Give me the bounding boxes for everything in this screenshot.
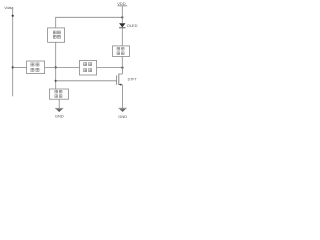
ground symbol right [119,108,127,112]
wire row horizontal segment 1 [13,66,27,68]
junction dot at VDD line [121,16,123,18]
svg-text:GND: GND [55,114,64,119]
junction dot main vertical at row wire [55,66,57,68]
wire top horizontal VDD feed [56,17,123,28]
pseudo CJK text right box [117,47,124,54]
junction dot data line upper [12,15,14,17]
pseudo CJK text left box [31,63,39,72]
VDD power symbol [117,1,127,23]
wire right box to drain node [121,57,123,68]
pseudo CJK text top box [53,31,60,38]
wire bottom box to ground [58,99,60,108]
svg-text:VDD: VDD [117,1,125,6]
box right (series element) [113,46,130,57]
junction dot at drain node [121,67,123,69]
pseudo CJK text middle box [84,63,92,72]
svg-text:DTFT: DTFT [128,77,138,81]
transistor DTFT [117,67,138,108]
wire gate horizontal [56,80,117,82]
wire main vertical from top box down to bottom box [55,42,57,89]
wire data line vertical [12,7,14,96]
box left (switch unit) [27,61,45,74]
junction dot data line at row wire [12,66,14,68]
svg-text:OLED: OLED [127,23,138,28]
diode OLED [119,23,138,46]
wire row horizontal segment 2 [45,66,80,68]
wire row horizontal segment 3 [97,66,123,68]
box top (current source unit) [48,28,65,42]
box middle (compensation unit) [80,60,97,75]
svg-text:Vdata: Vdata [4,6,13,10]
ground symbol middle [55,108,63,112]
junction dot main vertical at gate wire [55,80,57,82]
pseudo CJK text bottom box [55,90,62,97]
box bottom (storage unit) [50,89,69,99]
svg-text:GND: GND [118,114,127,119]
